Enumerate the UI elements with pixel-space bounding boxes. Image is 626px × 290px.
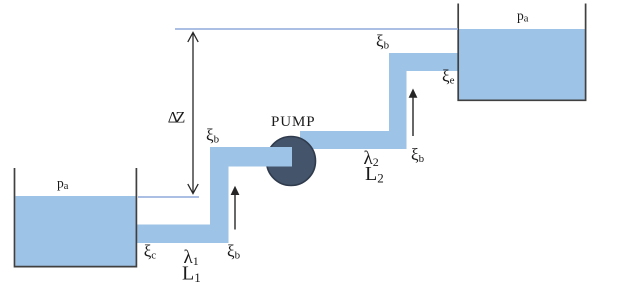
delta-Z double-headed arrow [188, 33, 198, 194]
upper water level reference line [175, 28, 458, 30]
upper tank water fill [459, 29, 585, 100]
flow arrow in riser 2 [409, 89, 418, 137]
pump P1 circle [267, 137, 316, 186]
lower water level reference line [138, 196, 199, 198]
lower tank walls [15, 168, 137, 267]
pipe: pump inlet horizontal segment (drawn over pump) [210, 147, 292, 167]
svg-text:PUMP: PUMP [271, 114, 315, 130]
lower tank water fill [16, 196, 136, 267]
pipe: discharge vertical riser 2 [389, 53, 407, 149]
pipe: upper horizontal segment into upper tank [389, 53, 459, 71]
svg-text:ΔZ: ΔZ [168, 110, 185, 127]
upper tank walls [458, 4, 585, 101]
pipe: suction horizontal segment from lower tank (lambda1 L1) [137, 225, 229, 244]
flow arrow in riser 1 [231, 186, 240, 230]
pipe: discharge horizontal segment from pump (lambda2 L2) [300, 131, 407, 149]
pipe: suction vertical riser 1 [210, 147, 229, 243]
